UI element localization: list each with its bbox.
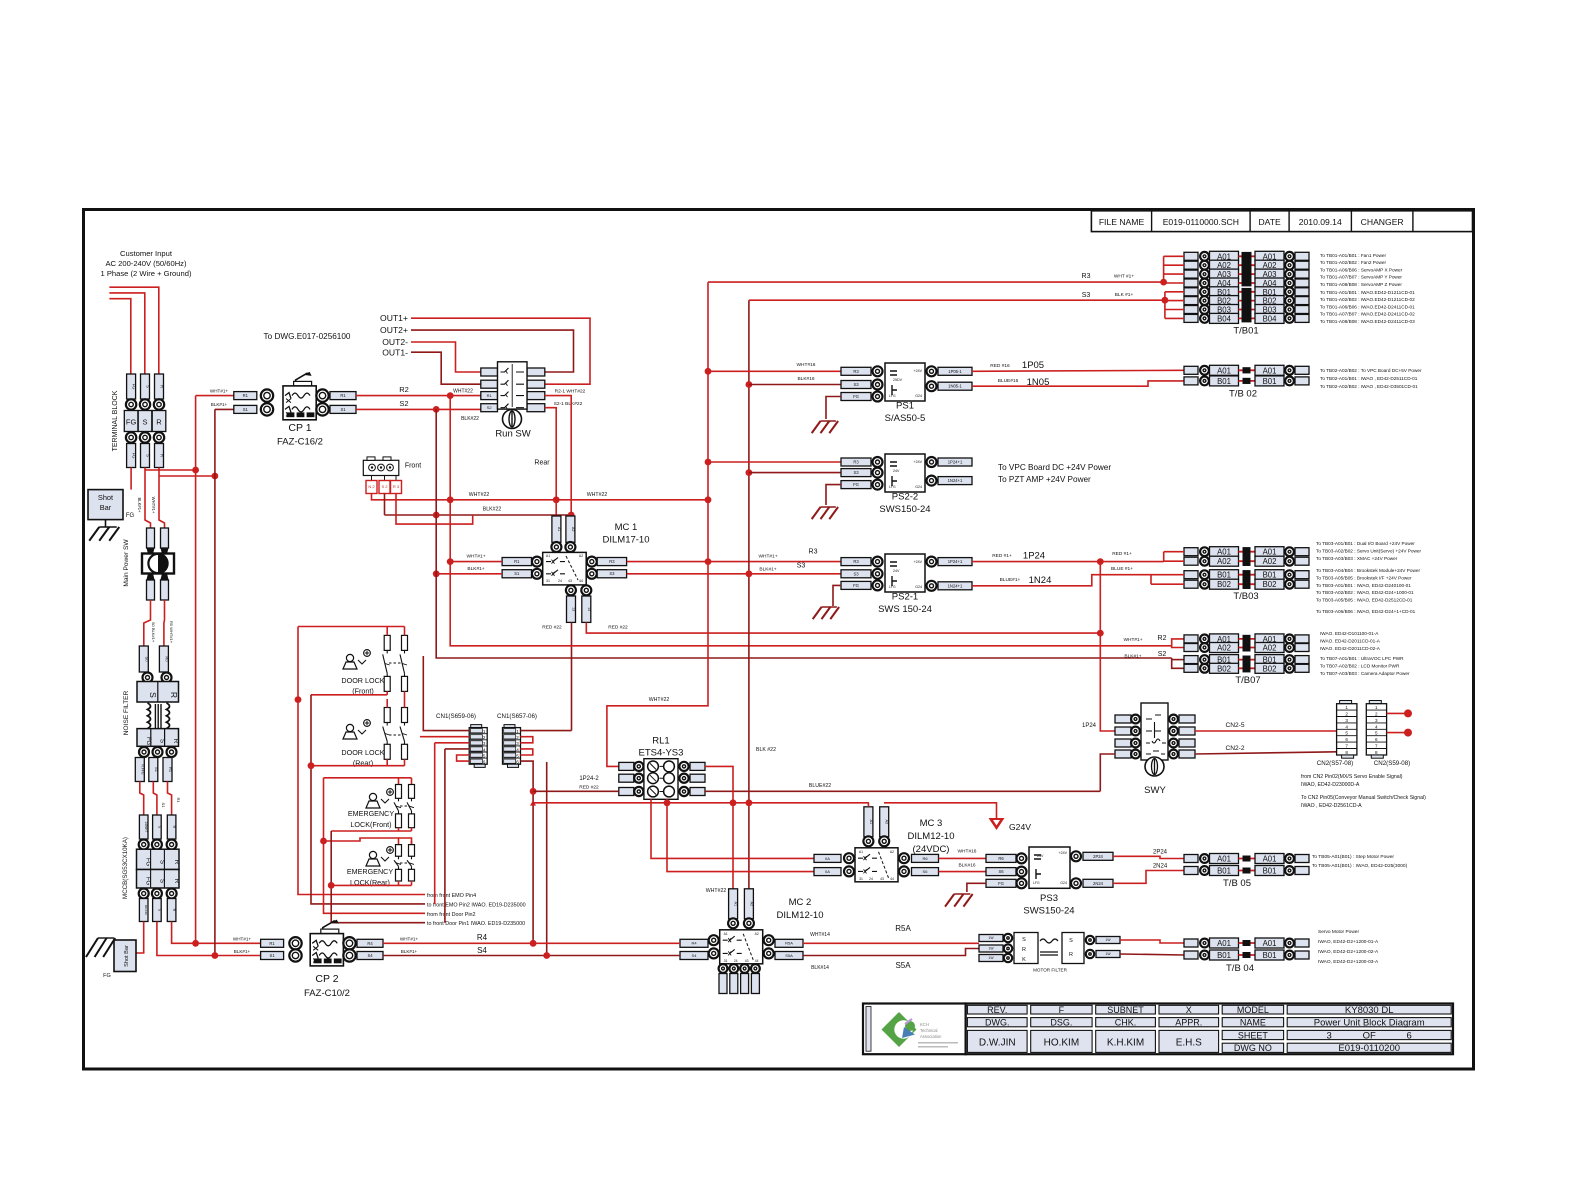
svg-text:B04: B04 — [1263, 314, 1278, 323]
contactor MC3 — [814, 807, 939, 882]
svg-text:Shot: Shot — [98, 493, 113, 502]
svg-text:1W: 1W — [1105, 938, 1111, 942]
customer input note — [101, 249, 192, 278]
svg-text:To VPC Board DC +24V Power: To VPC Board DC +24V Power — [998, 463, 1111, 472]
svg-text:A02: A02 — [1217, 644, 1231, 653]
svg-text:MC 2: MC 2 — [789, 897, 812, 908]
svg-text:RL1: RL1 — [652, 736, 669, 747]
wire RL1 row3 out — [705, 790, 1100, 792]
svg-text:OUT2-: OUT2- — [382, 337, 408, 347]
svg-text:CN2-5: CN2-5 — [1225, 722, 1244, 729]
wire run sw S2-1 down — [545, 408, 556, 516]
wire swy in4 dark — [1100, 754, 1115, 791]
svg-text:R3: R3 — [609, 559, 615, 564]
svg-text:to front Door Pin1 IWAO. ED19: to front Door Pin1 IWAO. ED19-D235000 — [427, 921, 525, 927]
svg-text:RED #16: RED #16 — [990, 363, 1010, 369]
svg-text:3: 3 — [1327, 1031, 1332, 1042]
wire emergency rail bottom left — [331, 830, 411, 832]
svg-text:Run SW: Run SW — [495, 429, 530, 440]
motor noise filter NF2 — [979, 933, 1120, 973]
svg-text:S5A: S5A — [895, 961, 911, 970]
svg-text:R1: R1 — [340, 393, 346, 398]
contactor MC1 — [502, 516, 627, 622]
svg-text:S: S — [159, 739, 166, 744]
svg-text:DILM12-10: DILM12-10 — [908, 831, 955, 842]
svg-text:0A: 0A — [825, 856, 830, 861]
connector Front — [363, 457, 421, 494]
svg-text:1P24: 1P24 — [1023, 551, 1045, 562]
svg-text:DILM12-10: DILM12-10 — [777, 910, 824, 921]
svg-text:R1: R1 — [176, 797, 181, 803]
svg-text:R: R — [1069, 952, 1073, 958]
svg-text:S0 BLK#1+: S0 BLK#1+ — [151, 622, 156, 643]
svg-text:+24V: +24V — [914, 369, 923, 373]
svg-text:BLK #1+: BLK #1+ — [1115, 292, 1134, 298]
svg-text:S3: S3 — [609, 571, 615, 576]
svg-text:KY8030 DL: KY8030 DL — [1345, 1005, 1394, 1016]
svg-text:24V: 24V — [1037, 854, 1044, 858]
svg-text:IWAO, ED42-D23000D-A: IWAO, ED42-D23000D-A — [1301, 782, 1360, 788]
svg-text:FAZ-C16/2: FAZ-C16/2 — [277, 437, 323, 448]
wire 1P24 — [972, 561, 1164, 563]
svg-text:To TB03-A03/B03 : XMAC +24V Po: To TB03-A03/B03 : XMAC +24V Power — [1316, 556, 1398, 561]
svg-text:Main Power SW: Main Power SW — [123, 539, 130, 587]
wire S3 trunk top — [749, 299, 1165, 301]
wire FG to shot bar — [130, 468, 132, 490]
wire T/B01 A fan — [1163, 256, 1165, 283]
wire MC1 in S — [436, 573, 502, 575]
symbol G24V arrow — [989, 818, 1005, 830]
wire MC3 in2 drop — [667, 799, 814, 871]
svg-text:FG: FG — [853, 482, 859, 487]
svg-text:OF: OF — [1363, 1031, 1376, 1042]
svg-text:24WHT: 24WHT — [144, 822, 148, 833]
svg-text:WHT#1+: WHT#1+ — [210, 388, 229, 393]
svg-text:A01: A01 — [1263, 855, 1277, 864]
node R3 bus — [705, 558, 712, 565]
svg-text:R1: R1 — [487, 393, 493, 398]
svg-text:RED #1+: RED #1+ — [1112, 551, 1132, 557]
svg-text:A1: A1 — [546, 554, 550, 558]
svg-text:To PZT AMP +24V Power: To PZT AMP +24V Power — [998, 475, 1091, 484]
svg-text:R6: R6 — [998, 856, 1004, 861]
svg-text:4: 4 — [516, 747, 519, 752]
wire MC1 aux13 down — [571, 622, 573, 730]
svg-text:CN2-2: CN2-2 — [1225, 745, 1244, 752]
svg-text:43: 43 — [568, 579, 572, 583]
svg-text:24: 24 — [734, 959, 738, 963]
svg-text:MCCB(SG53CX10KA): MCCB(SG53CX10KA) — [122, 837, 129, 899]
svg-text:A1: A1 — [859, 850, 863, 854]
switch SWY — [1115, 703, 1195, 796]
wire PS2-2 FG ground — [826, 485, 841, 505]
note T/B05 — [1312, 854, 1408, 869]
svg-text:BLK#1+: BLK#1+ — [211, 402, 228, 407]
svg-text:N.FFG: N.FFG — [140, 764, 144, 775]
svg-text:To TB01-A07/B07 : IWAO.ED42-D2: To TB01-A07/B07 : IWAO.ED42-D2411CD-02 — [1320, 312, 1415, 317]
svg-text:S 2: S 2 — [381, 484, 388, 489]
svg-text:To TB01-A08/B08 : IWAO.ED42-D2: To TB01-A08/B08 : IWAO.ED42-D2411CD-03 — [1320, 319, 1415, 324]
wire OUT1+ — [411, 318, 590, 384]
switch Run SW — [481, 362, 545, 440]
svg-text:K.H.KIM: K.H.KIM — [1107, 1038, 1144, 1049]
wire customer input S — [109, 293, 144, 374]
svg-text:IWAO, ED42-D2+1200-01-A: IWAO, ED42-D2+1200-01-A — [1318, 939, 1379, 945]
svg-text:F: F — [1059, 1005, 1065, 1015]
svg-text:24: 24 — [869, 877, 873, 881]
svg-text:SWS 150-24: SWS 150-24 — [878, 604, 932, 615]
note EMO wires — [427, 893, 526, 927]
svg-text:G24V: G24V — [1009, 822, 1031, 832]
svg-text:1N24+1: 1N24+1 — [948, 478, 963, 483]
svg-text:4: 4 — [1375, 724, 1378, 729]
svg-text:To TB03-A05/B05 : Brookstek I/: To TB03-A05/B05 : Brookstek I/F +24V Pow… — [1316, 575, 1412, 580]
svg-text:LOCK(Front): LOCK(Front) — [350, 820, 391, 829]
svg-text:3: 3 — [483, 741, 486, 746]
svg-text:14: 14 — [587, 607, 591, 611]
node emergency rail2 — [328, 882, 335, 889]
svg-text:43: 43 — [880, 877, 884, 881]
connector CN1 S657 — [497, 713, 537, 767]
svg-text:24V: 24V — [893, 569, 900, 573]
wire CN2 out5 — [1387, 732, 1408, 734]
svg-text:S4: S4 — [477, 946, 487, 955]
svg-text:FG: FG — [853, 394, 859, 399]
svg-text:CP 1: CP 1 — [288, 422, 311, 434]
svg-text:1: 1 — [1345, 705, 1348, 710]
svg-text:BLK#22: BLK#22 — [483, 507, 502, 513]
svg-text:BLUE#1+: BLUE#1+ — [1000, 577, 1021, 583]
svg-text:To TB03-A01/B01 : IWAO, ED42-: To TB03-A01/B01 : IWAO, ED42-D240100-01 — [1316, 583, 1411, 588]
svg-text:ETS4-YS3: ETS4-YS3 — [639, 748, 684, 759]
svg-text:RED #1+: RED #1+ — [992, 553, 1012, 559]
svg-text:S: S — [1069, 938, 1073, 944]
svg-text:R: R — [160, 454, 165, 457]
svg-text:13: 13 — [572, 607, 576, 611]
svg-text:APPR.: APPR. — [1175, 1018, 1202, 1028]
svg-text:To TB07-A02/B02 : LCD Monitor: To TB07-A02/B02 : LCD Monitor PWR — [1320, 663, 1400, 668]
svg-text:FG: FG — [132, 453, 137, 459]
svg-text:CN1(S657-06): CN1(S657-06) — [497, 713, 537, 720]
shot bar lower — [103, 940, 136, 979]
svg-text:+24V: +24V — [914, 560, 923, 564]
wire R down to main switch — [159, 468, 165, 529]
svg-text:31: 31 — [859, 877, 863, 881]
wire OUT2+ — [411, 330, 574, 372]
svg-text:R: R — [169, 692, 179, 698]
svg-text:A2: A2 — [755, 932, 759, 936]
wire doorlock rail2 left — [311, 695, 425, 904]
wire emergency top rail — [324, 777, 412, 779]
svg-text:BLK#16: BLK#16 — [958, 863, 975, 869]
svg-text:Association: Association — [920, 1034, 942, 1039]
svg-text:X: X — [1186, 1005, 1192, 1015]
wire R tap to BLK bus — [159, 475, 215, 477]
svg-text:To TB01-A01/B01 : Fan1 Power: To TB01-A01/B01 : Fan1 Power — [1320, 253, 1387, 258]
svg-text:44: 44 — [755, 959, 759, 963]
node R4 x533 — [530, 940, 537, 947]
svg-text:A1: A1 — [724, 932, 728, 936]
terminal block T/B02 — [1184, 365, 1309, 399]
svg-text:+24V: +24V — [1059, 851, 1068, 855]
svg-text:BLK#22: BLK#22 — [461, 416, 479, 422]
wire filter to TB04 B — [1120, 954, 1184, 955]
wire doorlock left rail — [298, 627, 425, 895]
svg-text:S/AS50-5: S/AS50-5 — [885, 413, 926, 424]
svg-text:R4: R4 — [367, 941, 373, 946]
svg-text:WHT#1+: WHT#1+ — [400, 937, 419, 942]
svg-text:CN1(S659-06): CN1(S659-06) — [436, 713, 476, 720]
svg-text:S3: S3 — [853, 382, 859, 387]
svg-text:SUBNET: SUBNET — [1107, 1005, 1144, 1015]
title block — [966, 1004, 1453, 1055]
note T/B07 — [1320, 631, 1410, 676]
svg-text:1: 1 — [516, 729, 519, 734]
svg-text:4: 4 — [1345, 724, 1348, 729]
svg-text:A2: A2 — [890, 850, 894, 854]
svg-text:S4: S4 — [692, 953, 698, 958]
svg-text:R2: R2 — [399, 385, 409, 394]
svg-text:A1: A1 — [734, 901, 738, 906]
wire 1P24-2 — [533, 790, 619, 792]
svg-text:from front Door Pin2: from front Door Pin2 — [427, 912, 476, 918]
wire MCCB R to CP2 row — [172, 922, 261, 944]
ground shot bar lower — [86, 938, 115, 957]
svg-text:To TB03-A04/B04 : Brookstek M: To TB03-A04/B04 : Brookstek Module+24V P… — [1316, 568, 1420, 573]
wire R3 trunk top — [708, 281, 1164, 283]
svg-text:FG: FG — [126, 513, 135, 519]
svg-text:WHT#1+: WHT#1+ — [1123, 637, 1142, 643]
wire MCCB S to CP2 row — [157, 922, 261, 956]
svg-text:1P24+1: 1P24+1 — [948, 559, 963, 564]
svg-text:R3: R3 — [853, 559, 859, 564]
wire S2 — [356, 408, 481, 410]
wire CN1 pin2 — [420, 736, 469, 738]
svg-text:E.H.S: E.H.S — [1176, 1038, 1202, 1049]
terminal block T/B07 — [1184, 634, 1309, 686]
svg-text:BLK #22: BLK #22 — [756, 747, 776, 753]
fan T/B07 A — [1172, 639, 1184, 646]
svg-text:A1: A1 — [869, 819, 873, 824]
svg-text:25DV: 25DV — [893, 378, 903, 382]
terminal block T/B04 — [1184, 938, 1309, 974]
svg-text:CP 2: CP 2 — [315, 973, 338, 985]
svg-text:DSG.: DSG. — [1050, 1018, 1072, 1028]
wire RL1 row1 out — [705, 766, 733, 895]
svg-text:3: 3 — [1345, 718, 1348, 723]
svg-text:A01: A01 — [1217, 548, 1231, 557]
svg-text:EMERGENCY: EMERGENCY — [347, 867, 394, 876]
svg-text:EMERGENCY: EMERGENCY — [348, 809, 395, 818]
svg-text:To TB01-A02/B02 : IWAO.ED42-D1: To TB01-A02/B02 : IWAO.ED42-D1211CD-02 — [1320, 297, 1415, 302]
wire PS2-2 in R3 — [708, 461, 841, 463]
wire blue22 horiz — [533, 802, 869, 804]
svg-text:1: 1 — [1375, 705, 1378, 710]
wire 2N24 — [1113, 871, 1184, 884]
svg-text:R3: R3 — [1082, 273, 1091, 280]
wire T/B01 B fan — [1164, 292, 1166, 319]
svg-text:R5A: R5A — [785, 941, 793, 946]
wire CN1 pin4 down — [444, 749, 446, 923]
wire CN1 pin56 U — [457, 755, 470, 761]
svg-text:E019-0110200: E019-0110200 — [1338, 1043, 1400, 1054]
svg-text:1: 1 — [483, 729, 486, 734]
svg-text:S3: S3 — [853, 571, 859, 576]
svg-text:S3: S3 — [1082, 292, 1091, 299]
svg-text:S2: S2 — [399, 399, 408, 408]
wire NF to MCCB FG — [140, 782, 144, 816]
terminal block T/B01 — [1184, 251, 1309, 336]
svg-text:R3: R3 — [809, 549, 818, 556]
svg-text:R3: R3 — [853, 459, 859, 464]
svg-text:R0 WHT#1+: R0 WHT#1+ — [169, 621, 174, 644]
svg-text:1P24-2: 1P24-2 — [579, 776, 599, 782]
wire front pin1 WHT#22 — [372, 494, 709, 500]
svg-text:To TB07-A01/B01 : UltraVOC LPC: To TB07-A01/B01 : UltraVOC LPC PWR — [1320, 656, 1404, 661]
svg-text:S1: S1 — [340, 407, 346, 412]
node WHT22 R2bus — [447, 496, 454, 503]
svg-text:S: S — [146, 454, 151, 457]
svg-text:3: 3 — [516, 741, 519, 746]
svg-text:R1: R1 — [168, 767, 173, 773]
svg-text:31: 31 — [546, 579, 550, 583]
svg-text:Power Unit Block Diagram: Power Unit Block Diagram — [1314, 1018, 1425, 1029]
svg-text:44: 44 — [579, 579, 583, 583]
svg-text:R4: R4 — [691, 941, 697, 946]
svg-text:CHK.: CHK. — [1115, 1018, 1137, 1028]
svg-text:FG: FG — [853, 583, 859, 588]
node R3 bus — [705, 496, 712, 503]
wire MC3 out R6 — [939, 857, 987, 859]
svg-text:BLUE#16: BLUE#16 — [998, 378, 1019, 384]
svg-text:A01: A01 — [1263, 939, 1277, 948]
svg-text:FG: FG — [103, 973, 111, 979]
svg-text:1P05: 1P05 — [1022, 360, 1044, 371]
wire CN2-2 — [1195, 752, 1337, 754]
note CN2 — [1301, 774, 1426, 809]
svg-text:1P24: 1P24 — [1082, 723, 1097, 729]
wire NF to MCCB R — [168, 782, 172, 816]
svg-text:DATE: DATE — [1258, 217, 1281, 227]
svg-text:To TB05-A01(B01) : IWAO, ED4: To TB05-A01(B01) : IWAO, ED42-D25(3000) — [1312, 863, 1408, 869]
svg-text:MC 1: MC 1 — [615, 522, 638, 533]
wire doorlock top rail — [298, 626, 405, 628]
wire doorlock rail2 — [311, 694, 387, 696]
svg-text:SWS150-24: SWS150-24 — [1023, 906, 1074, 917]
svg-text:1W: 1W — [988, 936, 994, 940]
svg-text:To TB02-A01/B01 : IWAO , ED42-: To TB02-A01/B01 : IWAO , ED42-D2511CD-01 — [1320, 376, 1418, 381]
wire MC1 out S3 — [627, 573, 841, 575]
svg-text:R: R — [1022, 947, 1026, 953]
wire R2 — [356, 395, 481, 397]
svg-text:WHT#16: WHT#16 — [797, 362, 816, 368]
svg-text:A01: A01 — [1217, 366, 1231, 375]
svg-text:DWG.: DWG. — [985, 1018, 1010, 1028]
power supply PS2-1 — [841, 554, 972, 615]
svg-text:LFG: LFG — [889, 394, 896, 398]
svg-text:G24: G24 — [915, 394, 922, 398]
node R2 bus — [447, 392, 454, 399]
svg-text:8: 8 — [1345, 750, 1348, 755]
svg-text:WHT#16: WHT#16 — [958, 849, 977, 855]
svg-text:A01: A01 — [1263, 366, 1277, 375]
svg-text:IWAO, ED42-D2+1200-03-A: IWAO, ED42-D2+1200-03-A — [1318, 959, 1379, 965]
wire emergency rail4 — [324, 838, 399, 845]
wire CN1 pin3 — [435, 742, 470, 744]
svg-text:SWS150-24: SWS150-24 — [879, 504, 930, 515]
connector CN2 S59 — [1366, 701, 1410, 768]
emergency lock front — [348, 785, 415, 830]
svg-text:S: S — [1022, 937, 1026, 943]
svg-text:IWAO , ED42-D2561CD-A: IWAO , ED42-D2561CD-A — [1301, 803, 1362, 809]
svg-text:To TB01-A02/B02 : Fan2 Power: To TB01-A02/B02 : Fan2 Power — [1320, 260, 1387, 265]
svg-text:B01: B01 — [1263, 377, 1277, 386]
svg-text:BLK#1+: BLK#1+ — [401, 949, 418, 954]
svg-text:(24VDC): (24VDC) — [913, 844, 950, 855]
svg-text:2010.09.14: 2010.09.14 — [1299, 217, 1342, 227]
svg-text:2: 2 — [516, 735, 519, 740]
svg-text:CHANGER: CHANGER — [1361, 217, 1404, 227]
svg-text:3: 3 — [1375, 718, 1378, 723]
svg-text:To TB01-A06/B06 : IWAO.ED42-D2: To TB01-A06/B06 : IWAO.ED42-D2411CD-01 — [1320, 304, 1415, 309]
connector CN2 S57 — [1317, 701, 1357, 768]
wire PS2-2 in S3 — [749, 472, 841, 474]
wire MC1 in R — [450, 561, 502, 563]
wire bus WHT to CP1 — [196, 395, 234, 397]
node S tap — [192, 467, 199, 474]
svg-text:R: R — [160, 385, 165, 388]
svg-text:TERMINAL BLOCK: TERMINAL BLOCK — [112, 390, 119, 451]
svg-text:R2-1 WHT#22: R2-1 WHT#22 — [555, 389, 586, 395]
svg-text:PS2-1: PS2-1 — [892, 592, 918, 603]
wire T/B03 B fan — [1150, 575, 1152, 585]
svg-text:S5A: S5A — [785, 953, 793, 958]
node S4 x547 — [543, 952, 550, 959]
svg-text:PS2-2: PS2-2 — [892, 492, 918, 503]
ground PS1 — [812, 421, 821, 433]
svg-text:R2: R2 — [1158, 635, 1167, 642]
wire MC2 coil A1 — [732, 895, 734, 897]
terminal block T/B05 — [1184, 854, 1309, 890]
wire CN1 pin4 tap — [546, 762, 548, 956]
svg-text:LFG: LFG — [1033, 881, 1040, 885]
svg-text:A01: A01 — [1263, 548, 1277, 557]
wire MC3 out S6 — [939, 871, 987, 873]
svg-text:BLK#1+: BLK#1+ — [137, 497, 142, 513]
wire 1N24 — [972, 575, 1151, 586]
svg-text:To DWG.E017-0256100: To DWG.E017-0256100 — [264, 332, 351, 341]
wire MC3 coil A1 — [867, 803, 869, 807]
node bus WHT to CP2 — [192, 940, 199, 947]
svg-text:2P24: 2P24 — [1153, 850, 1168, 856]
svg-text:R0: R0 — [164, 656, 169, 662]
svg-text:WHT#22: WHT#22 — [453, 389, 473, 395]
svg-text:BLK#1+: BLK#1+ — [759, 567, 776, 573]
svg-text:A1: A1 — [557, 527, 561, 532]
node red22 end — [1097, 630, 1104, 637]
svg-text:IWAO. ED42-D2011CD-01-A: IWAO. ED42-D2011CD-01-A — [1320, 638, 1381, 643]
svg-text:B01: B01 — [1263, 951, 1277, 960]
svg-text:N 2: N 2 — [368, 484, 375, 489]
svg-text:6: 6 — [1407, 1031, 1412, 1042]
svg-text:7: 7 — [1375, 744, 1378, 749]
svg-text:To TB03-A06/B06 : IWAO, ED42-: To TB03-A06/B06 : IWAO, ED42-D24+1+CD-01 — [1316, 609, 1416, 614]
svg-text:R1: R1 — [514, 559, 520, 564]
wire CN1R pin45 U — [520, 749, 532, 755]
terminal block T/B03 — [1184, 547, 1309, 602]
svg-text:To TB01-A08/B08 : ServoAMP Z: To TB01-A08/B08 : ServoAMP Z Power — [1320, 282, 1402, 287]
svg-text:MC 3: MC 3 — [920, 818, 943, 829]
